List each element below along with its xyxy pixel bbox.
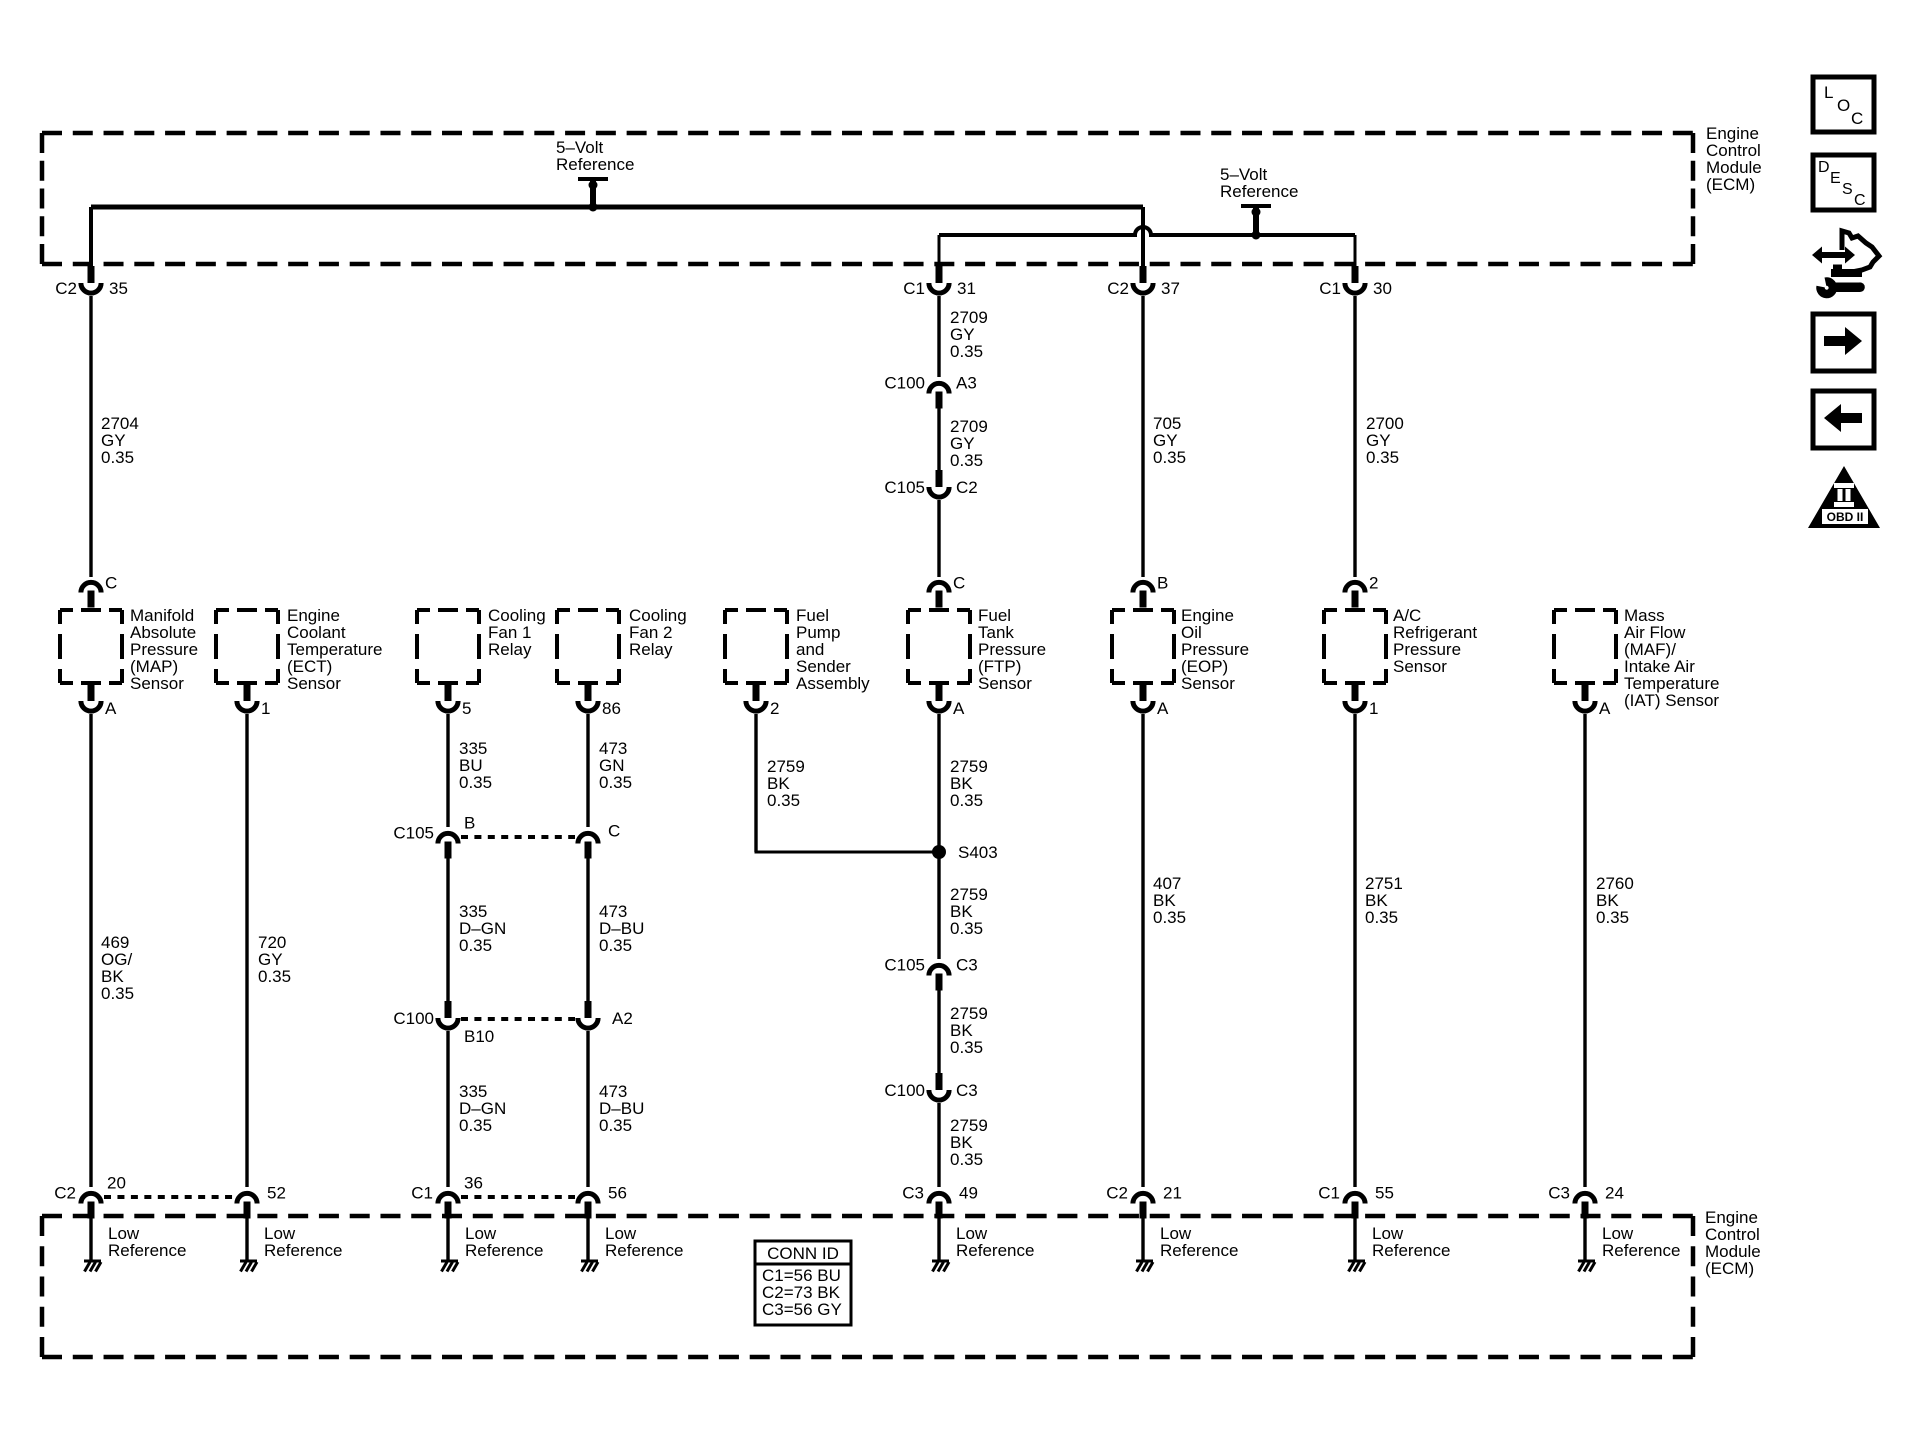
- svg-text:0.35: 0.35: [767, 791, 800, 810]
- svg-text:0.35: 0.35: [599, 773, 632, 792]
- svg-text:Reference: Reference: [1602, 1241, 1680, 1260]
- svg-text:S403: S403: [958, 843, 998, 862]
- svg-text:C105: C105: [393, 824, 434, 843]
- svg-text:Assembly: Assembly: [796, 674, 870, 693]
- svg-text:OBD II: OBD II: [1827, 510, 1864, 524]
- svg-text:C1: C1: [1319, 279, 1341, 298]
- svg-text:C3: C3: [956, 1081, 978, 1100]
- svg-text:36: 36: [464, 1174, 483, 1193]
- svg-text:52: 52: [267, 1184, 286, 1203]
- svg-text:0.35: 0.35: [459, 1116, 492, 1135]
- svg-text:Relay: Relay: [629, 640, 673, 659]
- svg-text:0.35: 0.35: [1596, 908, 1629, 927]
- svg-text:Reference: Reference: [556, 155, 634, 174]
- svg-text:L: L: [1824, 83, 1833, 102]
- svg-text:Reference: Reference: [264, 1241, 342, 1260]
- svg-text:0.35: 0.35: [950, 342, 983, 361]
- svg-text:C3: C3: [956, 956, 978, 975]
- svg-text:(ECM): (ECM): [1705, 1259, 1754, 1278]
- svg-text:0.35: 0.35: [1153, 908, 1186, 927]
- svg-text:A3: A3: [956, 374, 977, 393]
- svg-text:C105: C105: [884, 478, 925, 497]
- svg-text:24: 24: [1605, 1184, 1624, 1203]
- svg-text:37: 37: [1161, 279, 1180, 298]
- svg-text:A2: A2: [612, 1009, 633, 1028]
- svg-text:0.35: 0.35: [950, 919, 983, 938]
- svg-text:Relay: Relay: [488, 640, 532, 659]
- svg-text:S: S: [1842, 181, 1853, 198]
- svg-text:49: 49: [959, 1184, 978, 1203]
- svg-text:C3=56 GY: C3=56 GY: [762, 1300, 842, 1319]
- svg-text:0.35: 0.35: [599, 1116, 632, 1135]
- svg-text:0.35: 0.35: [101, 448, 134, 467]
- svg-text:0.35: 0.35: [950, 791, 983, 810]
- svg-text:B: B: [1157, 574, 1168, 593]
- svg-text:A: A: [953, 699, 965, 718]
- svg-text:2: 2: [770, 699, 779, 718]
- svg-text:Reference: Reference: [1372, 1241, 1450, 1260]
- svg-text:C1: C1: [411, 1184, 433, 1203]
- svg-text:30: 30: [1373, 279, 1392, 298]
- svg-text:0.35: 0.35: [1366, 448, 1399, 467]
- svg-text:0.35: 0.35: [459, 936, 492, 955]
- svg-text:A: A: [105, 699, 117, 718]
- svg-text:Reference: Reference: [1220, 182, 1298, 201]
- svg-text:C2: C2: [54, 1184, 76, 1203]
- svg-text:B: B: [464, 814, 475, 833]
- svg-text:55: 55: [1375, 1184, 1394, 1203]
- svg-text:O: O: [1837, 96, 1850, 115]
- svg-text:Reference: Reference: [605, 1241, 683, 1260]
- svg-text:E: E: [1830, 170, 1841, 187]
- svg-text:0.35: 0.35: [950, 451, 983, 470]
- svg-text:D: D: [1818, 159, 1830, 176]
- svg-text:C3: C3: [1548, 1184, 1570, 1203]
- svg-text:Reference: Reference: [465, 1241, 543, 1260]
- svg-text:0.35: 0.35: [950, 1038, 983, 1057]
- svg-text:C1: C1: [903, 279, 925, 298]
- svg-text:31: 31: [957, 279, 976, 298]
- svg-text:A: A: [1599, 699, 1611, 718]
- svg-text:C1: C1: [1318, 1184, 1340, 1203]
- svg-text:Reference: Reference: [956, 1241, 1034, 1260]
- svg-text:Reference: Reference: [108, 1241, 186, 1260]
- svg-text:C: C: [608, 822, 620, 841]
- svg-text:(ECM): (ECM): [1706, 175, 1755, 194]
- svg-text:0.35: 0.35: [459, 773, 492, 792]
- svg-text:5: 5: [462, 699, 471, 718]
- svg-text:35: 35: [109, 279, 128, 298]
- svg-text:A: A: [1157, 699, 1169, 718]
- svg-text:1: 1: [261, 699, 270, 718]
- svg-text:0.35: 0.35: [1153, 448, 1186, 467]
- svg-text:0.35: 0.35: [258, 967, 291, 986]
- svg-text:C: C: [953, 574, 965, 593]
- svg-text:Sensor: Sensor: [978, 674, 1032, 693]
- svg-text:Sensor: Sensor: [130, 674, 184, 693]
- svg-text:C100: C100: [393, 1009, 434, 1028]
- svg-text:21: 21: [1163, 1184, 1182, 1203]
- svg-text:B10: B10: [464, 1027, 494, 1046]
- svg-text:56: 56: [608, 1184, 627, 1203]
- svg-text:2: 2: [1369, 574, 1378, 593]
- svg-text:C2: C2: [55, 279, 77, 298]
- svg-text:(IAT) Sensor: (IAT) Sensor: [1624, 691, 1719, 710]
- svg-text:C2: C2: [956, 478, 978, 497]
- svg-text:C100: C100: [884, 374, 925, 393]
- svg-text:C3: C3: [902, 1184, 924, 1203]
- svg-text:1: 1: [1369, 699, 1378, 718]
- svg-text:C100: C100: [884, 1081, 925, 1100]
- svg-text:86: 86: [602, 699, 621, 718]
- svg-text:Sensor: Sensor: [1181, 674, 1235, 693]
- svg-text:0.35: 0.35: [950, 1150, 983, 1169]
- svg-text:0.35: 0.35: [599, 936, 632, 955]
- svg-text:C105: C105: [884, 956, 925, 975]
- svg-text:Reference: Reference: [1160, 1241, 1238, 1260]
- svg-text:C: C: [105, 574, 117, 593]
- svg-text:Sensor: Sensor: [1393, 657, 1447, 676]
- svg-text:0.35: 0.35: [1365, 908, 1398, 927]
- svg-text:20: 20: [107, 1174, 126, 1193]
- svg-text:Sensor: Sensor: [287, 674, 341, 693]
- svg-text:C2: C2: [1106, 1184, 1128, 1203]
- svg-text:C: C: [1854, 192, 1866, 209]
- svg-text:CONN ID: CONN ID: [767, 1244, 839, 1263]
- svg-text:C2: C2: [1107, 279, 1129, 298]
- svg-text:0.35: 0.35: [101, 984, 134, 1003]
- svg-text:C: C: [1851, 109, 1863, 128]
